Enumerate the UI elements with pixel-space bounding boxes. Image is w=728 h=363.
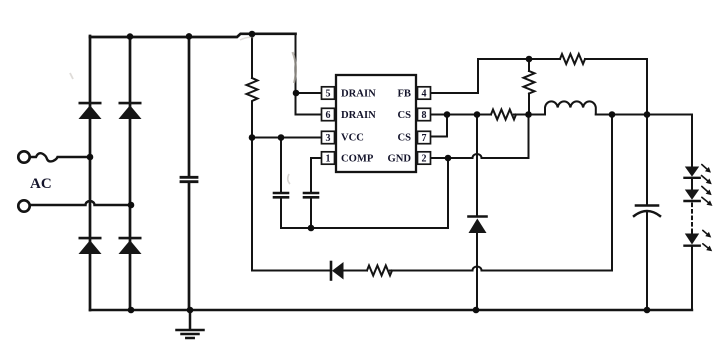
junction top rail / right bridge branch bbox=[127, 33, 134, 40]
LED2 glow arrow a bbox=[702, 186, 711, 194]
junction CS node / R2 / GND riser bbox=[525, 111, 532, 118]
junction FB rail / R2 bbox=[526, 56, 533, 63]
capacitor C4 curved plate bbox=[634, 211, 660, 216]
svg-text:7: 7 bbox=[422, 133, 427, 144]
capacitor C2 lead bottom bbox=[280, 199, 282, 229]
diode D5 cathode bar bbox=[469, 215, 487, 218]
junction CS line / D5 bbox=[474, 111, 481, 118]
IC U1 body bbox=[322, 75, 431, 172]
resistor R1 lead bottom bbox=[251, 103, 253, 271]
LED2 cathode bar bbox=[685, 200, 700, 202]
junction C3 return bbox=[308, 225, 315, 232]
resistor R2 lead bottom bbox=[528, 94, 530, 115]
junction pin5 tap bbox=[293, 90, 300, 97]
wire GND pin2 with hop bbox=[431, 115, 529, 159]
svg-text:5: 5 bbox=[326, 89, 331, 100]
fuse F1 squiggle bbox=[30, 153, 90, 161]
wire pin7 bbox=[431, 115, 448, 137]
svg-text:2: 2 bbox=[422, 154, 427, 165]
LED3 glow arrow b bbox=[703, 244, 712, 251]
wire bridge left branch bbox=[89, 36, 92, 310]
pin 5 box bbox=[322, 87, 335, 99]
junction R1 / VCC line bbox=[249, 134, 256, 141]
junction top rail / C1 bbox=[186, 33, 193, 40]
LED1 glow arrow b bbox=[702, 176, 712, 184]
capacitor C2 plates bbox=[274, 193, 288, 197]
LED2 glow arrow b bbox=[702, 197, 712, 205]
diode D5 lead top bbox=[476, 115, 478, 217]
svg-text:VCC: VCC bbox=[341, 133, 364, 144]
wire comp gnd return bbox=[281, 158, 448, 228]
wire pin6 bbox=[296, 114, 322, 116]
wire top feedback rail bbox=[478, 58, 647, 60]
wire LED1 to LED2 bbox=[691, 179, 693, 190]
junction bottom rail / D5 bbox=[473, 307, 480, 314]
LED3 cathode bar bbox=[685, 244, 700, 246]
junction bottom rail / C4 bbox=[644, 307, 651, 314]
diode D1 bridge top-left bbox=[79, 105, 102, 119]
diode D6 triangle bbox=[332, 262, 344, 280]
junction CS pin8 / pin7 tap bbox=[444, 111, 451, 118]
LED3 glow arrow a bbox=[703, 230, 711, 237]
wire feedback lower with hop bbox=[252, 115, 612, 271]
wire inductor to output bbox=[596, 114, 692, 116]
LED1 glow arrow a bbox=[702, 165, 711, 173]
svg-text:8: 8 bbox=[422, 110, 427, 121]
pin 3 box bbox=[322, 131, 335, 143]
wire CS pin8 bbox=[431, 114, 492, 116]
resistor R4 bbox=[367, 266, 392, 276]
wire bottom rail bbox=[90, 309, 692, 311]
pin 2 box bbox=[418, 152, 431, 164]
wire AC bottom with hop over left branch bbox=[30, 201, 131, 205]
svg-text:6: 6 bbox=[326, 110, 331, 121]
LED light arrows bbox=[702, 165, 712, 251]
junction GND line / return bbox=[445, 155, 452, 162]
capacitor C4 top plate bbox=[636, 204, 658, 207]
capacitor C3 plates bbox=[304, 193, 318, 197]
diode D5 lead bottom bbox=[476, 233, 478, 310]
junction bottom rail / ground bbox=[187, 307, 194, 314]
resistor R2 lead top bbox=[528, 59, 530, 71]
resistor R2 bbox=[524, 71, 535, 94]
node AC-bottom to bridge bbox=[128, 202, 135, 209]
wire bridge right branch bbox=[129, 36, 132, 310]
inductor L1 bbox=[545, 101, 596, 114]
node AC-top to bridge bbox=[87, 154, 94, 161]
svg-text:CS: CS bbox=[397, 110, 411, 121]
wire LED string top bbox=[691, 115, 693, 167]
resistor R1 lead top bbox=[251, 34, 253, 78]
LED3 triangle bbox=[685, 234, 699, 245]
capacitor C1 plates bbox=[181, 177, 197, 181]
resistor R3 bbox=[560, 54, 585, 64]
wire top rail bbox=[90, 34, 296, 37]
svg-text:FB: FB bbox=[397, 89, 411, 100]
capacitor C4 lead top bbox=[646, 59, 648, 205]
wire dotted LED continuation bbox=[691, 204, 693, 230]
wire VCC node bbox=[252, 137, 322, 139]
pin 6 box bbox=[322, 108, 335, 120]
wire pin5 drop bbox=[295, 34, 297, 115]
junction bottom rail / right bridge branch bbox=[128, 307, 135, 314]
pin 1 box bbox=[322, 152, 335, 164]
terminal AC bottom bbox=[18, 200, 29, 211]
ground bbox=[177, 310, 204, 338]
diode D5 triangle bbox=[469, 219, 487, 234]
pin 8 box bbox=[418, 108, 431, 120]
terminal AC top bbox=[18, 151, 29, 162]
diode D2 bridge top-right bbox=[119, 105, 142, 119]
scan smudge near pin5 drop bbox=[70, 37, 296, 184]
junction inductor output / feedback riser bbox=[609, 111, 616, 118]
svg-text:AC: AC bbox=[30, 176, 52, 192]
svg-text:DRAIN: DRAIN bbox=[341, 110, 376, 121]
junction VCC line / C2 bbox=[278, 134, 285, 141]
pin 4 box bbox=[418, 87, 431, 99]
junction output node / C4 bbox=[644, 111, 651, 118]
wire R5 to inductor bbox=[514, 114, 545, 116]
resistor R1 bbox=[247, 78, 258, 103]
wire LED3 top bbox=[691, 230, 693, 234]
LED1 triangle bbox=[685, 167, 699, 177]
svg-text:DRAIN: DRAIN bbox=[341, 89, 376, 100]
svg-text:GND: GND bbox=[387, 154, 411, 165]
LED2 triangle bbox=[685, 190, 699, 200]
junction top rail / R1 bbox=[249, 31, 256, 38]
wire COMP bbox=[311, 158, 322, 192]
capacitor C1 lead top bbox=[188, 35, 191, 176]
capacitor C4 lead bottom bbox=[646, 213, 648, 311]
diode D4 bridge bottom-right bbox=[119, 240, 142, 254]
svg-text:CS: CS bbox=[397, 133, 411, 144]
svg-text:4: 4 bbox=[422, 89, 427, 100]
pin 7 box bbox=[418, 131, 431, 143]
resistor R5 bbox=[491, 110, 516, 120]
svg-text:3: 3 bbox=[326, 133, 331, 144]
wire FB pin4 bbox=[431, 59, 479, 93]
wire LED string bottom bbox=[691, 247, 693, 310]
diode D6 cathode bar bbox=[330, 262, 333, 280]
wire pin5 bbox=[296, 92, 322, 94]
diode D3 bridge bottom-left bbox=[79, 240, 102, 254]
svg-text:1: 1 bbox=[326, 154, 331, 165]
capacitor C3 lead bottom bbox=[310, 199, 312, 229]
capacitor C1 lead bottom bbox=[188, 183, 191, 310]
capacitor C2 lead top bbox=[280, 138, 282, 193]
svg-text:COMP: COMP bbox=[341, 154, 374, 165]
LED1 cathode bar bbox=[685, 177, 700, 179]
